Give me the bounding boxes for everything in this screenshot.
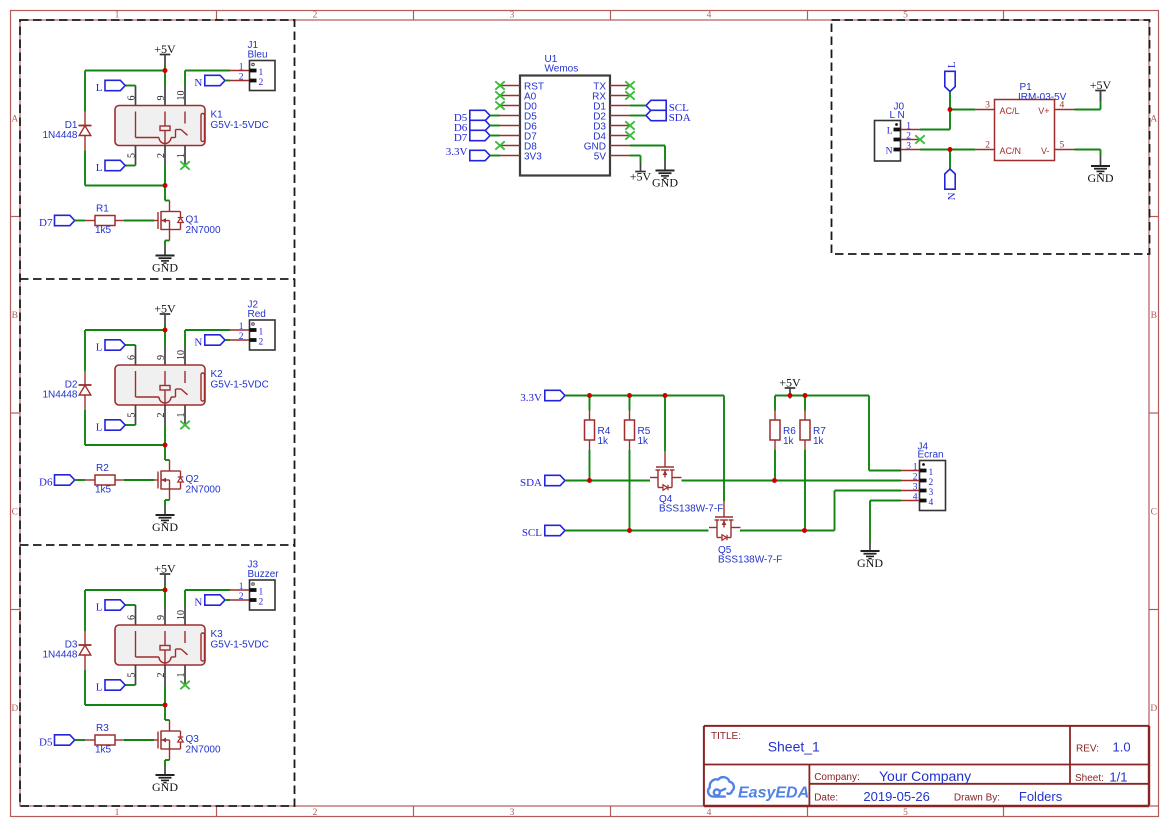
- svg-text:2N7000: 2N7000: [186, 225, 221, 236]
- svg-text:1N4448: 1N4448: [42, 130, 77, 141]
- svg-text:3: 3: [906, 142, 911, 152]
- svg-text:1/1: 1/1: [1109, 769, 1127, 784]
- svg-text:2: 2: [906, 132, 911, 142]
- svg-text:GND: GND: [1088, 171, 1114, 185]
- svg-text:5: 5: [903, 808, 908, 818]
- svg-text:1k: 1k: [783, 436, 795, 447]
- svg-text:A: A: [1150, 114, 1157, 124]
- svg-text:N: N: [886, 146, 893, 156]
- svg-text:3: 3: [985, 101, 990, 111]
- svg-text:V-: V-: [1041, 146, 1050, 156]
- svg-text:3: 3: [510, 11, 515, 21]
- svg-text:Bleu: Bleu: [248, 49, 268, 60]
- svg-text:K2: K2: [211, 369, 224, 380]
- svg-text:+5V: +5V: [779, 375, 801, 389]
- svg-text:AC/L: AC/L: [1000, 106, 1020, 116]
- svg-text:4: 4: [913, 493, 918, 503]
- svg-text:SCL: SCL: [522, 527, 542, 539]
- svg-text:1.0: 1.0: [1113, 740, 1131, 755]
- svg-text:Date:: Date:: [814, 793, 838, 804]
- svg-text:4: 4: [707, 808, 712, 818]
- svg-text:1k5: 1k5: [95, 485, 112, 496]
- svg-text:4: 4: [707, 11, 712, 21]
- svg-text:R3: R3: [96, 723, 109, 734]
- svg-text:+5V: +5V: [630, 170, 652, 184]
- svg-text:Company:: Company:: [814, 772, 860, 783]
- svg-text:2N7000: 2N7000: [186, 485, 221, 496]
- svg-text:B: B: [12, 311, 18, 321]
- svg-text:G5V-1-5VDC: G5V-1-5VDC: [211, 640, 269, 651]
- svg-text:3: 3: [510, 808, 515, 818]
- svg-text:C: C: [1151, 507, 1157, 517]
- svg-text:K1: K1: [211, 110, 224, 121]
- svg-text:2: 2: [313, 11, 318, 21]
- svg-text:D: D: [1150, 704, 1157, 714]
- svg-text:K3: K3: [211, 629, 224, 640]
- svg-text:R2: R2: [96, 463, 109, 474]
- svg-text:B: B: [1151, 311, 1157, 321]
- svg-text:1: 1: [115, 808, 120, 818]
- svg-text:A: A: [11, 114, 18, 124]
- svg-text:1k: 1k: [598, 436, 610, 447]
- svg-text:+5V: +5V: [1090, 78, 1112, 92]
- svg-text:Q2: Q2: [186, 474, 200, 485]
- svg-text:GND: GND: [652, 176, 678, 190]
- svg-text:Red: Red: [248, 309, 266, 320]
- svg-text:REV:: REV:: [1076, 744, 1099, 755]
- svg-text:2: 2: [985, 141, 990, 151]
- svg-text:1k5: 1k5: [95, 225, 112, 236]
- svg-text:L: L: [946, 61, 958, 68]
- svg-text:2N7000: 2N7000: [186, 745, 221, 756]
- svg-text:1: 1: [906, 122, 911, 132]
- svg-text:1k: 1k: [813, 436, 825, 447]
- svg-text:3V3: 3V3: [524, 151, 542, 162]
- svg-text:BSS138W-7-F: BSS138W-7-F: [718, 555, 782, 566]
- svg-text:Drawn By:: Drawn By:: [954, 793, 1000, 804]
- svg-text:D5: D5: [39, 737, 53, 749]
- svg-text:1N4448: 1N4448: [42, 390, 77, 401]
- svg-text:SDA: SDA: [669, 112, 691, 124]
- svg-text:2: 2: [913, 473, 918, 483]
- svg-text:D7: D7: [454, 132, 468, 144]
- svg-text:3: 3: [913, 483, 918, 493]
- svg-text:3.3V: 3.3V: [520, 392, 542, 404]
- svg-text:1N4448: 1N4448: [42, 650, 77, 661]
- svg-text:N: N: [946, 192, 958, 200]
- svg-text:1k5: 1k5: [95, 745, 112, 756]
- svg-text:1k: 1k: [638, 436, 650, 447]
- svg-text:2: 2: [313, 808, 318, 818]
- svg-text:R1: R1: [96, 204, 109, 215]
- svg-text:1: 1: [913, 463, 918, 473]
- svg-text:1: 1: [929, 468, 934, 478]
- svg-text:BSS138W-7-F: BSS138W-7-F: [659, 504, 723, 515]
- svg-text:Ecran: Ecran: [918, 450, 944, 461]
- svg-text:AC/N: AC/N: [1000, 146, 1022, 156]
- svg-text:EasyEDA: EasyEDA: [738, 784, 809, 801]
- svg-text:Q3: Q3: [186, 734, 200, 745]
- svg-text:L N: L N: [890, 110, 905, 121]
- svg-text:3.3V: 3.3V: [446, 146, 468, 158]
- svg-text:D6: D6: [39, 477, 53, 489]
- svg-text:G5V-1-5VDC: G5V-1-5VDC: [211, 380, 269, 391]
- svg-text:C: C: [12, 507, 18, 517]
- svg-text:Folders: Folders: [1019, 789, 1063, 804]
- svg-text:V+: V+: [1038, 106, 1049, 116]
- svg-text:D7: D7: [39, 217, 53, 229]
- svg-text:D: D: [11, 704, 18, 714]
- svg-text:3: 3: [929, 488, 934, 498]
- svg-text:Wemos: Wemos: [545, 63, 579, 74]
- svg-text:TITLE:: TITLE:: [711, 731, 741, 742]
- svg-text:Sheet_1: Sheet_1: [768, 739, 820, 755]
- svg-text:SDA: SDA: [520, 477, 542, 489]
- svg-text:2: 2: [929, 478, 934, 488]
- svg-text:GND: GND: [857, 556, 883, 570]
- svg-text:L: L: [887, 126, 893, 136]
- svg-text:Sheet:: Sheet:: [1075, 773, 1104, 784]
- svg-text:2019-05-26: 2019-05-26: [863, 789, 930, 804]
- svg-text:G5V-1-5VDC: G5V-1-5VDC: [211, 120, 269, 131]
- svg-text:Your Company: Your Company: [879, 768, 971, 784]
- svg-text:4: 4: [929, 498, 934, 508]
- svg-text:Buzzer: Buzzer: [248, 569, 280, 580]
- svg-text:5V: 5V: [594, 151, 607, 162]
- svg-text:Q1: Q1: [186, 215, 200, 226]
